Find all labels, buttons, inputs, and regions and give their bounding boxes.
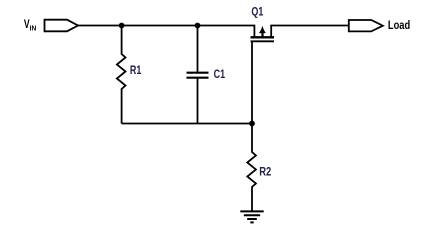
output flag Load (349, 20, 383, 31)
input flag VIN (45, 20, 79, 32)
wire: bottom rail R1/C1 to gate node (122, 123, 252, 125)
label Q1 (251, 6, 263, 18)
svg-text:IN: IN (30, 25, 37, 32)
svg-text:R2: R2 (259, 166, 271, 179)
label R1 (130, 65, 142, 77)
resistor R2 (247, 124, 256, 212)
node junction at C1 top (195, 23, 201, 29)
label Load (388, 20, 410, 32)
node junction gate/bottom-rail/R2 (249, 121, 255, 127)
label R2 (259, 166, 271, 179)
resistor R1 (117, 26, 126, 124)
label C1 (214, 69, 226, 81)
ground (240, 211, 263, 222)
wire: VIN flag to Q1 source (top rail left segment) (78, 26, 254, 37)
wire: Q1 drain to Load flag (top rail right segment) (270, 25, 349, 27)
transistor Q1 (MOSFET) (251, 26, 275, 42)
svg-text:Q1: Q1 (251, 6, 263, 18)
label VIN (24, 19, 30, 31)
svg-text:R1: R1 (130, 65, 142, 77)
wire: Q1 gate down to node (251, 41, 253, 123)
node junction at R1 top (119, 23, 125, 29)
capacitor C1 (187, 26, 209, 124)
svg-text:C1: C1 (214, 69, 226, 81)
svg-text:Load: Load (388, 20, 410, 32)
